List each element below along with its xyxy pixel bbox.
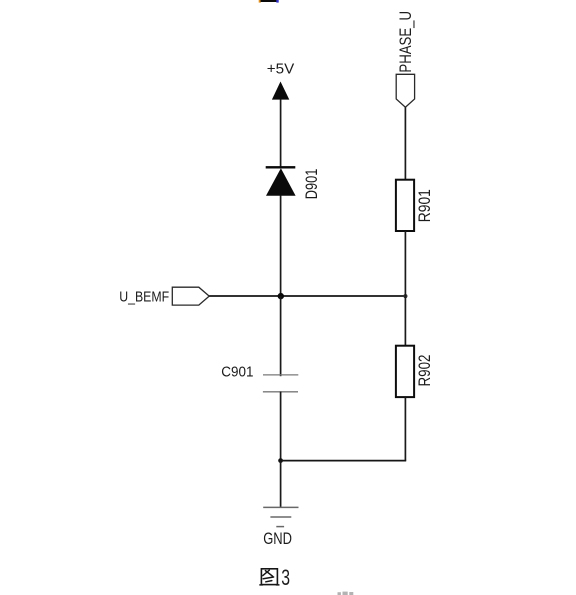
svg-text:C901: C901 — [221, 363, 253, 380]
svg-text:U_BEMF: U_BEMF — [119, 289, 169, 306]
power symbol +5V — [272, 82, 289, 100]
junction ground node — [278, 458, 283, 463]
ground symbol GND — [263, 507, 298, 526]
caption figure 3 glyph — [260, 569, 279, 585]
svg-text:R901: R901 — [415, 189, 434, 222]
junction node U_BEMF — [278, 293, 284, 299]
wire D901 anode to node — [280, 196, 282, 297]
svg-text:+5V: +5V — [267, 60, 294, 77]
wire ground node to GND symbol — [280, 461, 282, 508]
junction node R901-R902 — [403, 294, 407, 298]
resistor R902 — [396, 346, 414, 397]
wire +5V to D901 cathode — [280, 99, 282, 167]
wire U_BEMF to R901 branch — [209, 295, 405, 297]
svg-text:3: 3 — [281, 565, 290, 590]
wire R902 to bottom corner — [404, 397, 406, 461]
svg-text:PHASE_U: PHASE_U — [397, 11, 415, 73]
wire C901 to ground node — [280, 392, 282, 461]
diode D901 — [266, 166, 296, 196]
wire node to R902 — [404, 296, 406, 346]
port connector PHASE_U — [396, 74, 414, 107]
wire R901 to node — [404, 231, 406, 296]
capacitor C901 — [263, 375, 298, 392]
svg-text:R902: R902 — [415, 355, 434, 387]
wire PHASE_U to R901 — [404, 107, 406, 180]
wire bottom horizontal to ground node — [281, 460, 407, 462]
svg-text:GND: GND — [263, 530, 292, 548]
resistor R901 — [396, 180, 414, 231]
top cropped element — [259, 0, 279, 3]
port connector U_BEMF — [172, 287, 209, 305]
svg-text:D901: D901 — [302, 169, 321, 200]
wire node to C901 — [280, 296, 282, 376]
watermark fragment — [338, 592, 354, 595]
